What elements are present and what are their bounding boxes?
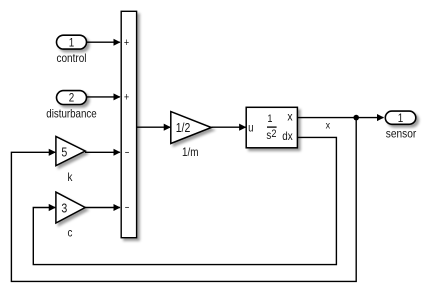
svg-text:2: 2: [69, 91, 75, 105]
svg-text:sensor: sensor: [386, 126, 417, 140]
svg-text:dx: dx: [282, 129, 292, 143]
svg-text:+: +: [124, 92, 129, 104]
svg-text:x: x: [326, 119, 331, 131]
outport oval: [385, 111, 416, 124]
wire: gain 1/m -> integrator u: [211, 126, 245, 128]
inport 2 "disturbance": [46, 91, 97, 121]
gain triangle: [56, 136, 85, 165]
svg-text:+: +: [124, 37, 129, 49]
inport oval: [57, 91, 87, 105]
inport oval: [57, 35, 87, 49]
node: junction on x wire: [353, 115, 359, 121]
svg-text:x: x: [287, 110, 292, 124]
svg-text:1: 1: [267, 113, 272, 125]
wire: gain c -> sum -: [85, 207, 120, 209]
svg-text:k: k: [68, 170, 74, 184]
wire: control -> sum +: [86, 41, 120, 43]
svg-text:1: 1: [69, 35, 75, 49]
outport 1 "sensor": [385, 111, 416, 141]
svg-text:1/m: 1/m: [182, 145, 199, 159]
svg-text:5: 5: [61, 144, 67, 159]
gain c (value 3): [56, 192, 85, 239]
gain 1/m (value 1/2): [171, 112, 212, 159]
inport 1 "control": [57, 35, 87, 65]
integrator body: [246, 107, 297, 148]
wire: x feedback loop (junction down, left, up into gain k): [11, 118, 356, 282]
sum block (vertical bar with ++-- ): [121, 11, 136, 237]
wire: gain k -> sum -: [85, 151, 120, 153]
wire: disturbance -> sum +: [86, 96, 120, 98]
svg-text:1: 1: [398, 111, 404, 125]
svg-text:3: 3: [61, 201, 67, 216]
svg-text:−: −: [125, 147, 130, 159]
svg-text:c: c: [68, 225, 73, 239]
gain triangle: [56, 192, 85, 223]
gain triangle: [171, 112, 212, 144]
wire: sum -> gain 1/m: [137, 126, 171, 128]
svg-text:u: u: [248, 121, 253, 135]
svg-text:control: control: [57, 51, 87, 65]
gain k (value 5): [56, 136, 85, 184]
integrator block 1/s^2: [246, 107, 297, 148]
svg-text:2: 2: [271, 128, 276, 140]
wire: integrator x -> sensor outport: [297, 117, 383, 119]
svg-text:−: −: [125, 202, 130, 214]
sum block body: [121, 11, 136, 237]
svg-text:disturbance: disturbance: [46, 106, 97, 120]
svg-text:1/2: 1/2: [176, 120, 191, 135]
wire: dx feedback loop (integrator dx right, down, left, up into gain c): [33, 137, 336, 264]
